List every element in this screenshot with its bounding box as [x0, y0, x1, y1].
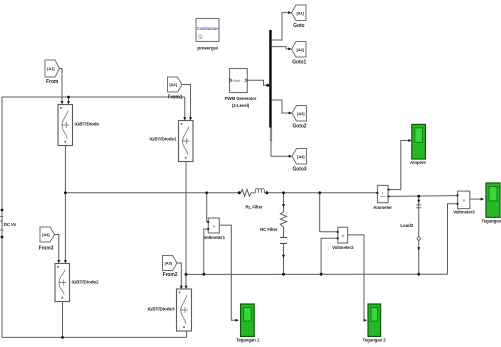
svg-text:Continuous: Continuous: [197, 26, 220, 31]
svg-text:Goto3: Goto3: [293, 167, 307, 173]
svg-text:PWM Generator: PWM Generator: [225, 96, 257, 101]
svg-text:Goto2: Goto2: [293, 124, 307, 130]
svg-text:Voltmeter3: Voltmeter3: [453, 209, 475, 214]
svg-text:Voltmeter1: Voltmeter1: [204, 235, 226, 240]
svg-text:[A2]: [A2]: [170, 82, 178, 87]
svg-text:Voltmeter2: Voltmeter2: [332, 245, 354, 250]
svg-text:[A4]: [A4]: [42, 232, 50, 237]
svg-text:[A1]: [A1]: [47, 66, 55, 71]
svg-text:From1: From1: [168, 94, 183, 100]
svg-text:IGBT/Diode3: IGBT/Diode3: [147, 307, 175, 312]
svg-text:IGBT/Diode1: IGBT/Diode1: [149, 136, 177, 141]
svg-text:i: i: [382, 192, 383, 196]
svg-text:DC Vs: DC Vs: [4, 222, 17, 227]
svg-text:[A4]: [A4]: [297, 154, 305, 159]
svg-text:Load2: Load2: [400, 223, 413, 228]
svg-text:Ammeter: Ammeter: [373, 205, 392, 210]
svg-text:powergui: powergui: [197, 45, 218, 51]
svg-text:From3: From3: [39, 246, 54, 252]
svg-text:Tegangan 1: Tegangan 1: [236, 337, 260, 342]
svg-text:IGBT/Diode: IGBT/Diode: [75, 122, 100, 127]
svg-text:Goto1: Goto1: [292, 59, 306, 65]
svg-text:[A3]: [A3]: [165, 261, 173, 266]
svg-text:RL Filter: RL Filter: [245, 205, 263, 210]
svg-text:[A2]: [A2]: [297, 47, 305, 52]
svg-text:From: From: [46, 79, 59, 85]
svg-text:IGBT/Diode2: IGBT/Diode2: [72, 280, 100, 285]
svg-text:RC Filter: RC Filter: [260, 227, 278, 232]
svg-text:v: v: [342, 234, 344, 238]
svg-text:(2-Level): (2-Level): [232, 103, 250, 108]
svg-text:Tegangan 2: Tegangan 2: [363, 337, 387, 342]
svg-text:From2: From2: [163, 272, 178, 278]
svg-text:[A1]: [A1]: [297, 10, 305, 15]
svg-text:Tegangan 3: Tegangan 3: [481, 219, 501, 224]
svg-text:v: v: [213, 225, 215, 229]
svg-text:[A3]: [A3]: [297, 111, 305, 116]
svg-text:Ampere: Ampere: [410, 160, 426, 165]
svg-text:v: v: [463, 199, 465, 203]
svg-text:Goto: Goto: [293, 23, 304, 29]
svg-text:Uref: Uref: [233, 79, 240, 83]
